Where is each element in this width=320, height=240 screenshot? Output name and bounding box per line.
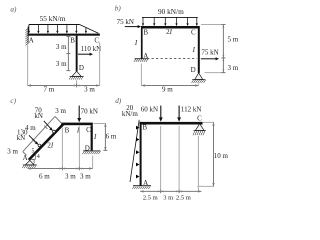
- svg-text:5 m: 5 m: [227, 35, 238, 43]
- svg-text:75 kN: 75 kN: [201, 49, 218, 57]
- svg-text:110 kN: 110 kN: [81, 45, 102, 53]
- svg-text:C: C: [191, 29, 196, 37]
- svg-text:4: 4: [37, 154, 40, 160]
- svg-text:3 m: 3 m: [7, 147, 18, 155]
- svg-text:B: B: [143, 29, 148, 37]
- svg-text:C: C: [197, 115, 202, 123]
- svg-text:9 m: 9 m: [162, 86, 173, 94]
- svg-text:C: C: [86, 126, 91, 134]
- svg-text:B: B: [70, 37, 75, 45]
- svg-text:3 m: 3 m: [55, 107, 66, 115]
- svg-text:c): c): [10, 97, 16, 105]
- svg-text:kN: kN: [34, 112, 43, 120]
- svg-text:3 m: 3 m: [65, 172, 76, 180]
- svg-text:D: D: [85, 145, 90, 153]
- svg-text:B: B: [65, 126, 70, 134]
- svg-text:b): b): [115, 5, 122, 13]
- svg-text:3 m: 3 m: [56, 60, 67, 68]
- svg-text:3 m: 3 m: [84, 85, 95, 93]
- svg-text:70 kN: 70 kN: [81, 108, 98, 116]
- svg-text:2I: 2I: [47, 141, 54, 149]
- svg-text:75 kN: 75 kN: [117, 18, 134, 26]
- svg-text:10 m: 10 m: [214, 152, 229, 160]
- svg-text:3 m: 3 m: [56, 43, 67, 51]
- svg-text:112 kN: 112 kN: [181, 106, 202, 114]
- svg-text:55 kN/m: 55 kN/m: [40, 14, 66, 23]
- svg-text:6 m: 6 m: [39, 172, 50, 180]
- svg-text:a): a): [10, 6, 17, 14]
- svg-text:kN/m: kN/m: [122, 110, 139, 118]
- svg-text:7 m: 7 m: [43, 85, 54, 93]
- svg-text:kN: kN: [17, 134, 26, 142]
- svg-text:90 kN/m: 90 kN/m: [158, 7, 184, 16]
- svg-text:B: B: [142, 124, 147, 132]
- svg-text:60 kN: 60 kN: [141, 106, 158, 114]
- svg-text:3 m: 3 m: [80, 172, 91, 180]
- svg-text:2I: 2I: [166, 28, 173, 36]
- svg-text:D: D: [191, 66, 196, 74]
- svg-text:5: 5: [32, 149, 35, 155]
- svg-text:2.5 m: 2.5 m: [176, 194, 191, 201]
- svg-text:3 m: 3 m: [163, 194, 173, 201]
- svg-text:2.5 m: 2.5 m: [143, 194, 158, 201]
- svg-text:C: C: [94, 37, 99, 45]
- svg-text:d): d): [115, 97, 122, 105]
- svg-text:3 m: 3 m: [227, 64, 238, 72]
- svg-text:6 m: 6 m: [106, 132, 117, 140]
- svg-text:D: D: [79, 64, 84, 72]
- svg-text:4 m: 4 m: [25, 124, 36, 132]
- svg-text:A: A: [23, 154, 28, 162]
- svg-text:A: A: [29, 37, 34, 45]
